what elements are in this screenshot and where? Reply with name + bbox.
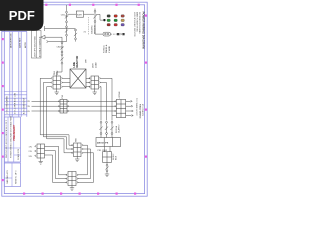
ground below TB1 (55, 89, 59, 95)
stub under PDF badge (45, 26, 76, 31)
revision table entries (6, 92, 26, 114)
svg-text:30A DISC: 30A DISC (91, 25, 94, 34)
fuse F4 branch (74, 29, 77, 41)
svg-text:DESCRIPTION: DESCRIPTION (11, 33, 13, 48)
svg-text:TO MCC: TO MCC (103, 44, 105, 53)
svg-text:FIELD WIRING: FIELD WIRING (139, 104, 141, 119)
line reactor T1 (70, 69, 86, 88)
wire CB3 to terminal block TB1 (57, 64, 62, 76)
wires TB7 to TB8 (45, 146, 67, 182)
ground below TB8 (70, 186, 74, 191)
svg-text:4 POLE: 4 POLE (119, 91, 121, 99)
pilot light PL2 (114, 15, 117, 18)
zone tick marks right (145, 15, 147, 158)
zone tick marks bottom (23, 193, 136, 195)
pilot light PL5 (114, 19, 117, 22)
spare tap symbol (47, 40, 67, 43)
SW1 label (91, 25, 97, 34)
svg-text:2 N: 2 N (29, 151, 33, 153)
svg-text:KWH: KWH (77, 15, 82, 17)
fuse group label (115, 125, 121, 133)
line reactor T1 label (73, 55, 79, 67)
zone tick marks left (2, 38, 4, 181)
circuit breaker CB1 (65, 11, 68, 22)
TB4 chevrons (114, 101, 115, 112)
incoming supply arrow (41, 35, 62, 39)
svg-text:1 N: 1 N (27, 101, 31, 103)
svg-text:480V 3PH 60HZ FEED: 480V 3PH 60HZ FEED (35, 36, 37, 57)
svg-text:BY UTILITY SERVICE: BY UTILITY SERVICE (39, 36, 41, 57)
title block drawing number text (5, 115, 20, 160)
svg-text:LINE: LINE (57, 70, 59, 75)
TB2 label (93, 62, 98, 68)
svg-text:DWG NO 4471-E012-01 REV A SH 1: DWG NO 4471-E012-01 REV A SH 1 OF 3 (5, 119, 8, 158)
breaker CB3 (60, 53, 63, 64)
field connector TB4 (116, 100, 125, 118)
TB7 wire labels (29, 146, 33, 157)
svg-text:480V: 480V (93, 63, 95, 68)
TB7 chevrons (35, 146, 37, 157)
terminal block TB1 (53, 76, 61, 89)
svg-text:460V 3PH 60HZ SERVICE: 460V 3PH 60HZ SERVICE (133, 12, 135, 37)
part list boxes below title block (4, 163, 20, 187)
title block frame (4, 117, 20, 162)
ground below TB7 (39, 158, 43, 164)
terminal block TB2 (91, 76, 99, 89)
ground below TB2 (93, 89, 97, 95)
breaker CB2 (60, 42, 63, 53)
pilot light PL1 (107, 15, 110, 18)
svg-text:3PH: 3PH (86, 59, 88, 63)
output connector TB8 (68, 172, 76, 186)
wire CB1 to M1 box (67, 13, 76, 15)
wires TB1 to T1 (63, 78, 70, 86)
TB5 label (113, 153, 118, 160)
SPD1 contact (117, 33, 120, 35)
surge protector SPD1 (103, 32, 117, 36)
wire M1 to SW1 (84, 13, 95, 15)
inline connector TB3 (60, 100, 67, 114)
wires PS1 to TB5 (105, 147, 111, 152)
TB1 pin chevrons (51, 78, 63, 88)
svg-text:DATE REV: DATE REV (19, 37, 22, 48)
pilot light PL3 (121, 15, 124, 18)
TB1 label (54, 70, 59, 75)
svg-text:REACTOR: REACTOR (76, 55, 79, 67)
svg-text:CLASS J: CLASS J (118, 125, 121, 133)
ground below TB6 (75, 157, 79, 162)
sheet background (0, 0, 149, 198)
svg-text:PDF: PDF (9, 8, 35, 23)
revision strip column headers (11, 33, 28, 48)
SPD1 terminal (122, 33, 124, 35)
fuse F2 (65, 23, 68, 36)
wire SW1 to pilot cluster (96, 14, 103, 20)
fuse F7 (99, 121, 102, 137)
wire SW1 to surge protector (95, 22, 103, 34)
svg-text:MAIN POWER FEED: MAIN POWER FEED (135, 12, 138, 32)
svg-text:POWER WIRING DIAGRAM 460V MAIN: POWER WIRING DIAGRAM 460V MAIN FEED (10, 115, 13, 158)
control connector TB6 (74, 143, 82, 157)
pilot light PL6 (121, 19, 124, 22)
svg-text:SHEET 1 OF 3: SHEET 1 OF 3 (16, 170, 18, 184)
pilot light PL9 (121, 24, 124, 27)
wires TB2 to fuse bus bends (101, 78, 112, 120)
neutral tap wire to TB4 (112, 115, 116, 117)
ground below F10 (105, 172, 109, 177)
svg-text:PANEL A: PANEL A (105, 44, 108, 53)
wires T1 to TB2 (86, 78, 90, 86)
pilot light PL7 (107, 24, 110, 27)
inner border frame (4, 5, 144, 194)
wires TB6 to TB8 (78, 145, 94, 182)
customer connector TB7 (37, 144, 45, 158)
svg-text:POWER WIRING DIAGRAM: POWER WIRING DIAGRAM (141, 12, 145, 50)
TB6 chevrons (71, 144, 83, 153)
svg-text:CAD FILE 4471: CAD FILE 4471 (6, 169, 9, 184)
svg-text:BY OTHERS: BY OTHERS (141, 104, 143, 117)
TB4 outgoing arrows (126, 100, 134, 116)
svg-text:1 02-04 RELEASED: 1 02-04 RELEASED (6, 95, 9, 114)
svg-text:3 N: 3 N (29, 156, 33, 158)
svg-text:3 WIRE: 3 WIRE (109, 45, 111, 53)
SPD1 arrow (120, 33, 122, 35)
wire chain junction (66, 36, 68, 42)
three phase horizontal wires (32, 101, 117, 111)
svg-text:FU 10A: FU 10A (115, 125, 118, 133)
TB2 pin chevrons (89, 78, 101, 88)
fuse F10 below TB5 (105, 162, 108, 171)
svg-text:3 N: 3 N (27, 111, 31, 113)
PDF badge (0, 0, 44, 31)
TB3 chevrons (58, 101, 69, 112)
left revision strip top rule (2, 31, 27, 33)
svg-text:LOAD: LOAD (94, 62, 97, 68)
zone tick marks top (45, 4, 140, 6)
TB1 branch bus wires down (40, 78, 72, 153)
phase wire labels (27, 101, 31, 113)
svg-text:1 N: 1 N (29, 146, 33, 148)
svg-text:APPR: APPR (24, 42, 27, 48)
pilot light PL8 (114, 24, 117, 27)
pilot light common terminal (103, 19, 105, 21)
revision table rows (4, 92, 27, 115)
left revision strip column lines (10, 32, 27, 117)
svg-text:DISTRIBUTION PANEL: DISTRIBUTION PANEL (138, 12, 141, 35)
pilot light PL4 (107, 19, 110, 22)
svg-text:SCALE NTS: SCALE NTS (17, 148, 20, 160)
svg-text:2 N: 2 N (27, 106, 31, 108)
TB8 chevrons (66, 174, 79, 183)
power supply PS1 (96, 138, 121, 147)
svg-text:PRELIMINARY: PRELIMINARY (13, 124, 16, 140)
disconnect switch SW1 (93, 9, 96, 23)
field wiring note (135, 98, 143, 119)
svg-text:BUS: BUS (116, 155, 118, 160)
wire jog into breaker chain (61, 37, 63, 42)
svg-text:TO CRANE HOIST: TO CRANE HOIST (135, 98, 138, 116)
svg-text:A 05-02 AS BUILT: A 05-02 AS BUILT (23, 97, 26, 114)
fuse F8 (105, 121, 108, 137)
meter box M1 (76, 11, 83, 17)
utility source note table (32, 31, 42, 59)
svg-text:2 03-11 PER ECO 1182: 2 03-11 PER ECO 1182 (15, 92, 17, 114)
svg-text:24V DC PS: 24V DC PS (97, 142, 109, 145)
panel boundary dashed line (88, 17, 90, 35)
sheet title block text top right (133, 12, 146, 50)
fuse F9 (110, 121, 113, 137)
feeder drop wire from top border (66, 5, 68, 11)
dc connector TB5 (103, 152, 112, 163)
outer border frame (2, 2, 147, 196)
